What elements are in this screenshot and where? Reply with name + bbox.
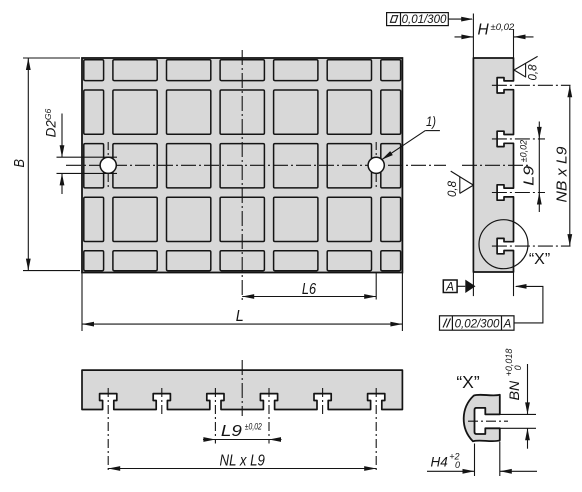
- svg-text:B: B: [11, 159, 28, 168]
- svg-text:“X”: “X”: [529, 251, 550, 268]
- svg-text:0: 0: [455, 460, 460, 470]
- svg-text:H: H: [478, 22, 490, 39]
- svg-text:A: A: [445, 281, 454, 293]
- svg-text:H4: H4: [431, 455, 448, 470]
- svg-text:1): 1): [426, 113, 436, 129]
- svg-text:L6: L6: [302, 281, 316, 298]
- svg-text:BN: BN: [506, 380, 522, 400]
- svg-text:±0,02: ±0,02: [491, 22, 515, 33]
- svg-text:L: L: [236, 308, 244, 325]
- svg-text:±0,02: ±0,02: [518, 140, 528, 162]
- svg-text:A: A: [503, 318, 512, 330]
- svg-text:0: 0: [513, 365, 523, 370]
- svg-text:0,02/300: 0,02/300: [455, 319, 500, 331]
- svg-text:0,8: 0,8: [528, 64, 540, 81]
- svg-text:L9: L9: [221, 423, 242, 440]
- svg-text:+0,018: +0,018: [504, 349, 514, 377]
- svg-text:“X”: “X”: [456, 372, 480, 392]
- svg-text:NB x L9: NB x L9: [554, 146, 571, 203]
- svg-text:NL x L9: NL x L9: [220, 452, 265, 469]
- svg-text:±0,02: ±0,02: [245, 421, 263, 432]
- svg-text:0,8: 0,8: [447, 180, 459, 197]
- svg-text:L9: L9: [520, 165, 537, 186]
- svg-text:0,01/300: 0,01/300: [402, 14, 447, 26]
